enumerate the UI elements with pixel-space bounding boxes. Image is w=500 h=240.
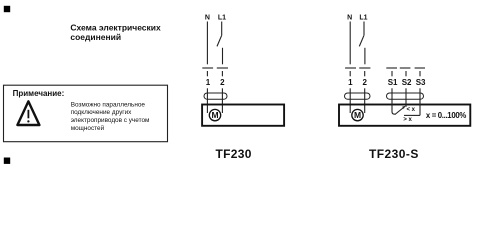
note text [71,101,150,132]
cable gland N/L1 (right) [345,93,371,99]
svg-text:TF230-S: TF230-S [369,147,419,161]
svg-text:M: M [354,110,361,120]
svg-text:электроприводов с учетом: электроприводов с учетом [71,117,150,124]
svg-text:N: N [205,15,210,22]
terminal bar S3 [415,67,425,69]
svg-text:Возможно параллельное: Возможно параллельное [71,101,146,108]
switch blade on L1 (left) [217,35,222,46]
corner mark bottom-left [4,158,10,164]
wire dash below bar 2 (right) [364,71,366,76]
wire L1 upper (right) [363,22,365,36]
wire S3 horizontal contact [404,114,420,116]
terminal bar 2 (right) [359,67,370,69]
terminal bar S2 [400,67,411,69]
svg-text:x = 0...100%: x = 0...100% [426,111,466,120]
note box (Примечание) [4,85,168,142]
svg-text:Схема электрических: Схема электрических [70,22,161,32]
wire L1 lower (right) [364,48,366,65]
wire S3 dash into gland [419,88,421,99]
svg-text:< x: < x [407,107,416,113]
corner mark top-left [4,6,10,12]
wire dash below bar 1 (right) [349,71,351,76]
svg-text:L1: L1 [359,15,367,22]
terminal bar 1 (right) [345,67,356,69]
svg-text:Примечание:: Примечание: [13,89,65,98]
svg-text:S2: S2 [402,78,412,87]
svg-text:M: M [211,110,218,120]
switch blade on L1 (right) [359,35,364,46]
wire L1 upper (left) [221,22,223,36]
wire 1 into actuator (right) [349,88,351,113]
svg-text:2: 2 [220,78,225,87]
svg-text:1: 1 [348,78,353,87]
warning triangle [17,101,39,125]
wire S3 vertical [419,99,421,115]
wire S2 dash into gland [405,88,407,99]
svg-text:подключение других: подключение других [71,109,132,116]
svg-text:> x: > x [403,117,412,123]
wire L1 lower (left) [222,48,224,65]
svg-text:1: 1 [206,78,211,87]
wire dash below bar 1 (left) [206,71,208,76]
svg-text:L1: L1 [218,15,226,22]
wire 2 into actuator (left) [221,88,223,113]
motor M (left) [209,109,220,120]
cable gland S1-S3 [387,93,424,99]
svg-text:N: N [347,15,352,22]
wire dash below bar S3 [419,71,421,76]
wire N (right) [349,22,351,65]
wire 2 into actuator (right) [364,88,366,113]
svg-text:S1: S1 [388,78,398,87]
wire S1 dash into gland [391,88,393,99]
terminal bar 2 (left) [217,67,228,69]
wire dash below bar 2 (left) [221,71,223,76]
actuator box TF230 [202,105,284,126]
svg-text:S3: S3 [416,78,426,87]
wire S1 contact hook [392,99,396,114]
wire S2 stub [405,99,407,107]
motor M (right) [352,109,363,120]
terminal bar S1 [386,67,397,69]
aux switch blade S1-S2 [396,107,405,114]
svg-text:соединений: соединений [70,32,121,42]
svg-text:мощностей: мощностей [71,124,105,132]
wire N (left) [206,22,208,65]
terminal bar 1 (left) [202,67,213,69]
actuator box TF230-S [339,105,470,126]
wire dash below bar S2 [405,71,407,76]
wire 1 into actuator (left) [206,88,208,113]
wire dash below bar S1 [391,71,393,76]
aux switch blade arrowhead [402,106,405,109]
svg-text:TF230: TF230 [216,147,252,161]
title: Схема электрических соединений [70,22,161,42]
svg-text:2: 2 [362,78,367,87]
cable gland (left) [204,93,227,99]
